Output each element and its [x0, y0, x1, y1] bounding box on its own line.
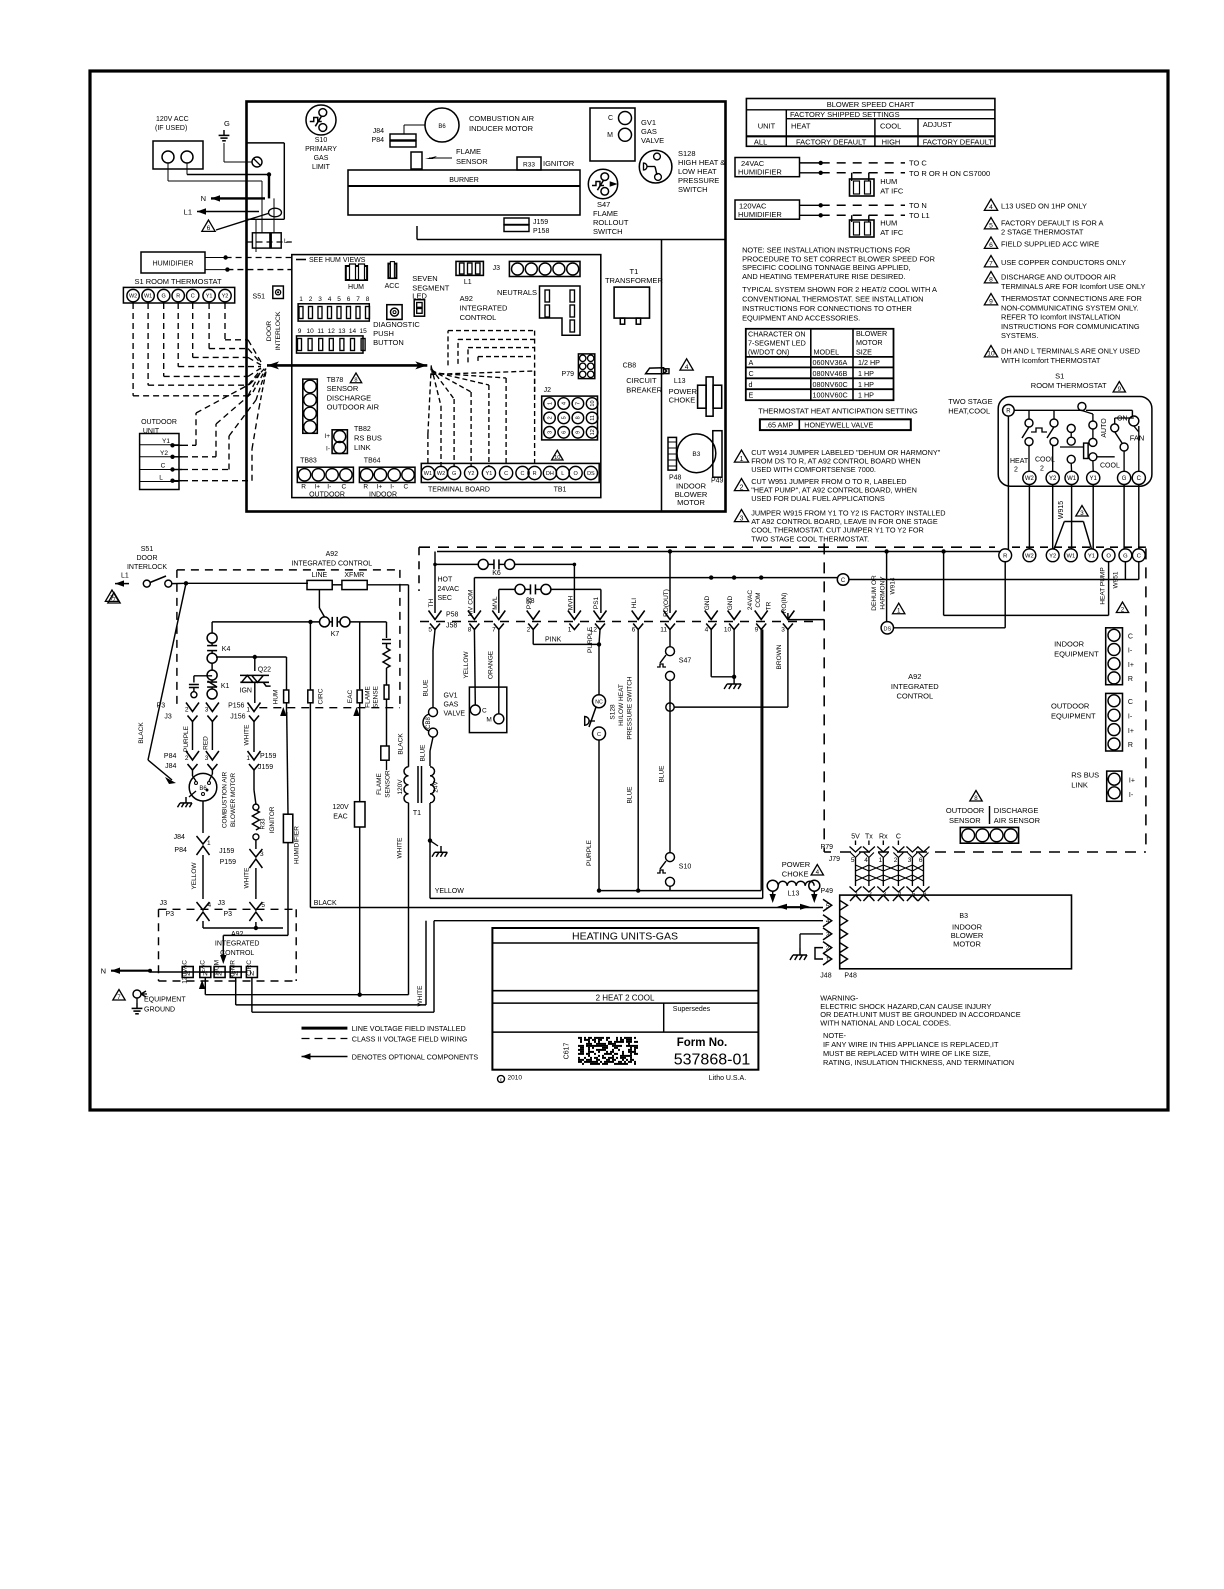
svg-text:ACC: ACC [385, 283, 400, 290]
svg-text:6: 6 [989, 242, 993, 249]
hum wire arrow down [286, 703, 288, 714]
svg-text:TWO STAGE COOL THERMOSTAT.: TWO STAGE COOL THERMOSTAT. [751, 534, 869, 543]
svg-text:Y1: Y1 [162, 438, 170, 445]
svg-text:Tx: Tx [865, 834, 873, 841]
svg-text:120V: 120V [397, 779, 404, 795]
connector HUM on board [346, 266, 367, 280]
svg-text:INTEGRATED: INTEGRATED [215, 941, 260, 948]
svg-text:P49: P49 [821, 888, 834, 895]
svg-text:G: G [452, 471, 456, 477]
svg-text:3: 3 [826, 931, 830, 938]
svg-text:MVH: MVH [567, 595, 574, 610]
svg-text:O: O [573, 471, 578, 477]
svg-text:HUMIDIFIER: HUMIDIFIER [738, 210, 782, 219]
svg-text:080NV46B: 080NV46B [813, 369, 848, 378]
svg-text:INTERLOCK: INTERLOCK [127, 564, 167, 571]
pressure switch S128 in ladder [593, 695, 606, 708]
svg-text:WHITE: WHITE [417, 985, 424, 1007]
svg-text:TB78: TB78 [327, 377, 344, 384]
svg-text:B3: B3 [959, 913, 968, 920]
svg-text:BURNER: BURNER [449, 177, 479, 184]
triangle note 8 sensors [970, 791, 982, 802]
svg-text:W951: W951 [1113, 571, 1120, 588]
svg-text:POWER: POWER [782, 860, 811, 869]
svg-text:A92: A92 [460, 294, 473, 303]
svg-text:P84: P84 [174, 847, 187, 854]
svg-text:AT IFC: AT IFC [880, 228, 904, 237]
svg-text:WITH Icomfort THERMOSTAT: WITH Icomfort THERMOSTAT [1001, 356, 1101, 365]
wire N bold [211, 197, 265, 199]
svg-text:M: M [486, 717, 491, 724]
svg-text:FIELD SUPPLIED ACC WIRE: FIELD SUPPLIED ACC WIRE [1001, 240, 1099, 249]
thermostat heat anticipation table [760, 419, 911, 430]
svg-text:SWITCH: SWITCH [593, 227, 623, 236]
T1 secondary to ground [429, 803, 431, 898]
svg-text:11: 11 [317, 328, 324, 335]
svg-text:5: 5 [261, 902, 265, 909]
svg-text:G: G [162, 294, 166, 300]
svg-text:080NV60C: 080NV60C [813, 380, 848, 389]
note 8 discharge outdoor air [984, 272, 997, 283]
screw terminal on interlock box [252, 157, 262, 167]
svg-text:SEC: SEC [438, 595, 452, 602]
sensor connector block [960, 827, 1018, 843]
svg-text:1 HP: 1 HP [858, 380, 874, 389]
svg-text:Rx: Rx [879, 834, 888, 841]
svg-text:1: 1 [547, 402, 553, 405]
svg-text:COOL: COOL [1035, 457, 1055, 464]
svg-text:TYPICAL SYSTEM SHOWN FOR 2 HEA: TYPICAL SYSTEM SHOWN FOR 2 HEAT/2 COOL W… [742, 285, 937, 294]
ignitor R33 box [517, 157, 541, 170]
svg-text:4: 4 [208, 902, 212, 909]
svg-text:SPECIFIC COOLING TONNAGE BEING: SPECIFIC COOLING TONNAGE BEING APPLIED, [742, 263, 911, 272]
svg-text:Supersedes: Supersedes [673, 1006, 711, 1013]
svg-text:BLACK: BLACK [138, 722, 145, 744]
svg-text:GV1: GV1 [641, 118, 656, 127]
svg-text:S10: S10 [679, 864, 692, 871]
svg-text:YELLOW: YELLOW [463, 651, 470, 679]
svg-text:DENOTES OPTIONAL COMPONENTS: DENOTES OPTIONAL COMPONENTS [352, 1052, 479, 1061]
svg-text:A92: A92 [908, 672, 921, 681]
diagnostic push button [387, 305, 402, 320]
svg-text:J3: J3 [160, 900, 168, 907]
svg-text:LED: LED [412, 291, 427, 300]
svg-text:OUTDOOR: OUTDOOR [1051, 702, 1090, 711]
svg-text:L: L [159, 475, 163, 482]
wires thermostat to lower terminals [1028, 485, 1030, 550]
svg-text:L: L [561, 471, 564, 477]
svg-text:PURPLE: PURPLE [586, 839, 593, 866]
svg-text:J159: J159 [219, 848, 234, 855]
switch S10 in ladder [666, 853, 675, 862]
svg-text:THERMOSTAT CONNECTIONS ARE FOR: THERMOSTAT CONNECTIONS ARE FOR [1001, 294, 1142, 303]
svg-text:BLACK: BLACK [314, 900, 337, 907]
svg-text:W2: W2 [1025, 476, 1035, 482]
outdoor unit wire dots [170, 443, 174, 447]
bottom junction bus purple blue [599, 890, 761, 892]
svg-text:CB8: CB8 [426, 717, 432, 729]
svg-text:CONVENTIONAL THERMOSTAT. SEE I: CONVENTIONAL THERMOSTAT. SEE INSTALLATIO… [742, 294, 923, 303]
svg-text:FLAME: FLAME [365, 686, 372, 708]
svg-text:I+: I+ [377, 484, 383, 491]
svg-text:PURPLE: PURPLE [587, 626, 594, 653]
bold wire from thermostat junction to board [267, 364, 427, 367]
svg-text:HONEYWELL VALVE: HONEYWELL VALVE [804, 420, 873, 429]
burner box [348, 170, 580, 215]
svg-text:EAC: EAC [199, 960, 206, 974]
svg-text:INDUCER MOTOR: INDUCER MOTOR [469, 124, 534, 133]
svg-text:C: C [841, 578, 846, 584]
svg-text:2 STAGE THERMOSTAT: 2 STAGE THERMOSTAT [1001, 228, 1084, 237]
svg-text:INTERLOCK: INTERLOCK [275, 311, 282, 350]
svg-text:IGN: IGN [240, 688, 252, 695]
svg-text:1/2 HP: 1/2 HP [858, 358, 880, 367]
svg-text:P79: P79 [821, 844, 834, 851]
svg-text:INTEGRATED: INTEGRATED [891, 682, 939, 691]
svg-text:DOOR: DOOR [266, 321, 273, 341]
svg-text:24V: 24V [433, 781, 440, 793]
svg-text:T1: T1 [413, 810, 421, 817]
wire TH blue to gas valve CB8 [433, 630, 435, 651]
svg-text:Y2: Y2 [1049, 476, 1057, 482]
svg-text:S1 ROOM THERMOSTAT: S1 ROOM THERMOSTAT [134, 277, 222, 286]
note 3 jumper W915 [734, 510, 748, 522]
svg-text:R33: R33 [260, 818, 266, 830]
svg-text:C: C [191, 294, 195, 300]
svg-text:AND HEATING TEMPERATURE RISE D: AND HEATING TEMPERATURE RISE DESIRED. [742, 272, 905, 281]
svg-text:HUM: HUM [348, 284, 364, 291]
svg-text:C: C [1128, 699, 1133, 706]
svg-text:C: C [482, 708, 487, 715]
svg-text:3: 3 [740, 514, 744, 522]
svg-text:ALL: ALL [754, 138, 767, 147]
svg-text:7: 7 [117, 994, 121, 1001]
relay contact K6 [434, 552, 436, 614]
svg-text:GAS: GAS [314, 155, 329, 162]
svg-text:11: 11 [660, 627, 667, 634]
note 5 factory default [984, 218, 997, 229]
svg-text:R: R [1128, 676, 1133, 683]
svg-text:EQUIPMENT AND ACCESSORIES.: EQUIPMENT AND ACCESSORIES. [742, 314, 860, 323]
svg-text:3: 3 [1080, 510, 1084, 517]
svg-text:HEAT: HEAT [791, 122, 811, 131]
svg-text:RS BUS: RS BUS [354, 434, 382, 443]
svg-text:7: 7 [112, 597, 116, 604]
svg-text:THERMOSTAT HEAT ANTICIPATION S: THERMOSTAT HEAT ANTICIPATION SETTING [758, 407, 918, 416]
svg-text:1 HP: 1 HP [858, 369, 874, 378]
svg-text:9: 9 [755, 627, 759, 634]
triangle note 7 [105, 590, 118, 601]
svg-text:4: 4 [685, 364, 689, 371]
svg-text:5: 5 [562, 416, 568, 419]
svg-text:CIRCUIT: CIRCUIT [626, 376, 657, 385]
svg-text:C: C [161, 463, 166, 470]
dashed wire bundle to terminal board [428, 365, 431, 434]
svg-text:P84: P84 [164, 753, 177, 760]
note 2 cut W951 [734, 479, 748, 491]
svg-text:S51: S51 [253, 294, 266, 301]
svg-text:120V ACC: 120V ACC [156, 116, 189, 123]
wires below J3 P3 [202, 921, 204, 928]
svg-text:10: 10 [724, 627, 732, 634]
svg-text:3: 3 [205, 755, 209, 762]
svg-text:DISCHARGE AND OUTDOOR AIR: DISCHARGE AND OUTDOOR AIR [1001, 273, 1116, 282]
B3 indoor blower motor box [840, 895, 1072, 969]
svg-text:INTEGRATED CONTROL: INTEGRATED CONTROL [291, 561, 372, 568]
svg-text:TO C: TO C [909, 158, 927, 167]
svg-text:SEE HUM VIEWS: SEE HUM VIEWS [309, 257, 366, 264]
combustion air inducer motor B6 circle [425, 108, 459, 142]
svg-text:YELLOW: YELLOW [191, 862, 198, 890]
svg-text:2010: 2010 [508, 1075, 523, 1082]
thermostat fan ON circle [1129, 416, 1139, 426]
ACC terminal circles [162, 151, 174, 163]
svg-text:Litho U.S.A.: Litho U.S.A. [709, 1075, 746, 1082]
svg-text:7: 7 [356, 296, 360, 303]
DS node circle [881, 622, 893, 634]
svg-text:TWO STAGE: TWO STAGE [948, 397, 992, 406]
note 7 copper conductors [984, 256, 997, 267]
class II dashed separator line [419, 546, 995, 548]
svg-text:100NV60C: 100NV60C [813, 391, 848, 400]
svg-text:DEHUM OR: DEHUM OR [871, 575, 878, 611]
cabinet enclosure box [247, 102, 726, 512]
svg-text:HOT: HOT [438, 577, 454, 584]
T1 primary white return [408, 803, 410, 995]
B3 pin3 ground [800, 933, 823, 935]
svg-text:LIMIT: LIMIT [312, 164, 331, 171]
burner compartment bottom line [417, 239, 726, 241]
wire TR 24vac com down [760, 630, 762, 891]
note 9 thermostat connections [984, 294, 997, 305]
svg-text:2: 2 [826, 945, 830, 952]
svg-text:N: N [101, 967, 106, 976]
svg-text:INTEGRATED: INTEGRATED [460, 304, 508, 313]
svg-text:1: 1 [246, 707, 250, 714]
capacitor parallel with K1 [194, 675, 212, 677]
svg-text:TB64: TB64 [364, 458, 381, 465]
A92 dashed box lower left [159, 908, 297, 910]
svg-text:A: A [749, 358, 754, 367]
humidifier wire into HUM N [223, 934, 288, 936]
svg-text:I+: I+ [1128, 728, 1134, 735]
flame sensor element [411, 152, 422, 169]
B3 blower pin chevrons [823, 899, 832, 911]
svg-text:R: R [1003, 553, 1007, 559]
triangle note 4 at choke [680, 359, 693, 370]
svg-text:HUM: HUM [214, 960, 221, 975]
wire to B3 pin 4 [434, 920, 823, 922]
svg-text:C: C [749, 369, 754, 378]
svg-text:5: 5 [337, 296, 341, 303]
svg-text:7: 7 [989, 261, 993, 268]
svg-text:NOTE-: NOTE- [823, 1031, 847, 1040]
svg-text:P156: P156 [228, 703, 244, 710]
svg-text:2: 2 [894, 857, 898, 864]
120V ACC terminal box [153, 141, 203, 169]
svg-text:VALVE: VALVE [641, 136, 664, 145]
svg-text:8: 8 [576, 416, 582, 419]
svg-text:2: 2 [1014, 467, 1018, 474]
svg-text:Y2: Y2 [160, 450, 168, 457]
connector L1 on board [456, 261, 483, 275]
svg-text:TB1: TB1 [554, 487, 567, 494]
black diagonal wire from interlock to B6 [148, 583, 186, 760]
svg-text:SIZE: SIZE [856, 347, 872, 356]
connector J159 P159 [504, 218, 529, 225]
svg-text:2: 2 [527, 627, 531, 634]
svg-text:I+: I+ [314, 484, 320, 491]
svg-text:GV1: GV1 [444, 693, 458, 700]
svg-text:S1: S1 [1055, 372, 1064, 381]
svg-text:WITH NATIONAL AND LOCAL CODES.: WITH NATIONAL AND LOCAL CODES. [820, 1019, 951, 1028]
wire DS to R [894, 627, 1006, 629]
bus 2 [474, 577, 838, 579]
wire B6 down yellow [202, 801, 204, 833]
svg-text:I+: I+ [1129, 778, 1135, 785]
svg-text:DH AND L TERMINALS ARE ONLY US: DH AND L TERMINALS ARE ONLY USED [1001, 347, 1140, 356]
svg-text:24VAC: 24VAC [747, 590, 754, 610]
wire PS2 pink [532, 630, 534, 645]
svg-text:8: 8 [354, 378, 357, 384]
relay contact K1 [207, 670, 217, 680]
connector chevrons motor circuit [186, 703, 199, 712]
legend line voltage [302, 1027, 348, 1030]
relay contact K4 [207, 633, 217, 643]
dip switch bank 1-8 [298, 304, 369, 321]
svg-text:1 HP: 1 HP [858, 391, 874, 400]
limit switch S10 primary gas limit [306, 105, 336, 135]
svg-text:15: 15 [359, 328, 367, 335]
svg-text:R: R [1006, 408, 1011, 414]
connector pins P58-J58 row [429, 611, 442, 620]
svg-text:J156: J156 [230, 714, 245, 721]
svg-text:W1: W1 [424, 471, 432, 477]
svg-text:FLAME: FLAME [456, 147, 481, 156]
svg-text:.65 AMP: .65 AMP [766, 420, 793, 429]
svg-text:J79: J79 [829, 856, 840, 863]
120VAC humidifier box [735, 200, 800, 219]
svg-text:LOW HEAT: LOW HEAT [678, 167, 717, 176]
twisted pair wires J79 to P49 [855, 858, 857, 886]
svg-text:P79: P79 [562, 371, 575, 378]
svg-text:P159: P159 [260, 753, 276, 760]
svg-text:B3: B3 [692, 451, 700, 458]
svg-text:10: 10 [554, 455, 560, 461]
svg-text:USED WITH COMFORTSENSE 7000.: USED WITH COMFORTSENSE 7000. [751, 465, 876, 474]
wire R terminal to bus [1001, 551, 1005, 553]
svg-text:GND: GND [704, 595, 711, 610]
svg-text:C: C [404, 484, 409, 491]
svg-text:J159: J159 [258, 764, 273, 771]
svg-text:PUSH: PUSH [373, 329, 394, 338]
svg-text:EQUIPMENT: EQUIPMENT [144, 997, 186, 1004]
combustion air blower motor B6 [189, 773, 217, 801]
svg-text:3: 3 [318, 296, 322, 303]
svg-text:10: 10 [987, 351, 995, 358]
thermostat middle contacts [1067, 424, 1075, 432]
svg-text:2: 2 [185, 755, 189, 762]
flame sensor rect in ladder [381, 746, 389, 760]
svg-text:WHITE: WHITE [244, 867, 251, 889]
svg-text:8: 8 [366, 296, 370, 303]
door interlock compartment [247, 142, 285, 144]
svg-text:10: 10 [590, 400, 596, 406]
note 6 field supplied [984, 237, 997, 248]
svg-text:G: G [1123, 553, 1128, 559]
svg-text:W2: W2 [1025, 553, 1034, 559]
svg-text:RED: RED [203, 736, 210, 750]
svg-text:INSTRUCTIONS FOR COMMUNICATING: INSTRUCTIONS FOR COMMUNICATING [1001, 322, 1140, 331]
svg-text:SENSE: SENSE [373, 685, 380, 708]
svg-text:BLUE: BLUE [627, 786, 634, 804]
svg-text:RO(OUT): RO(OUT) [663, 589, 670, 617]
svg-text:IGNITOR: IGNITOR [543, 159, 575, 168]
svg-text:BLOWER SPEED CHART: BLOWER SPEED CHART [827, 100, 915, 109]
svg-text:HUM: HUM [880, 177, 897, 186]
humidifier resistor in ladder [283, 814, 292, 842]
svg-text:SWITCH: SWITCH [678, 185, 708, 194]
svg-text:P158: P158 [533, 228, 549, 235]
svg-text:13: 13 [338, 328, 346, 335]
relay contact K8 [515, 584, 525, 594]
dashed wires outdoor unit to junction [173, 444, 183, 446]
svg-text:Y2: Y2 [1049, 553, 1056, 559]
svg-text:5V: 5V [851, 834, 860, 841]
svg-text:LINK: LINK [354, 443, 371, 452]
svg-text:L1: L1 [121, 573, 129, 580]
svg-text:NEUTRALS: NEUTRALS [497, 288, 537, 297]
svg-text:3: 3 [908, 857, 912, 864]
svg-text:1: 1 [568, 627, 572, 634]
svg-text:HEAT: HEAT [1010, 458, 1029, 465]
svg-text:COM: COM [755, 592, 762, 607]
svg-text:TB83: TB83 [300, 458, 317, 465]
svg-text:INDOOR: INDOOR [1054, 640, 1085, 649]
svg-text:M: M [607, 132, 613, 139]
svg-text:12: 12 [328, 328, 336, 335]
svg-text:C: C [1137, 476, 1142, 482]
svg-text:GROUND: GROUND [144, 1007, 175, 1014]
svg-text:DS: DS [883, 626, 891, 632]
svg-text:DH: DH [546, 471, 554, 477]
svg-text:MOTOR: MOTOR [677, 498, 705, 507]
indoor blower motor B3 circle [677, 434, 716, 473]
svg-text:Form No.: Form No. [677, 1037, 727, 1049]
title block heating units gas [492, 928, 758, 1070]
svg-text:P3: P3 [165, 911, 174, 918]
svg-text:CHOKE: CHOKE [782, 869, 809, 878]
svg-text:L1: L1 [464, 279, 472, 286]
svg-text:3: 3 [547, 431, 553, 434]
TB82 RS bus link connector [332, 430, 347, 454]
svg-text:P48: P48 [844, 973, 857, 980]
seven segment display [414, 300, 424, 317]
svg-text:CHARACTER ON: CHARACTER ON [748, 330, 806, 339]
svg-text:I+: I+ [1128, 662, 1134, 669]
svg-text:USED FOR DUAL FUEL APPLICATION: USED FOR DUAL FUEL APPLICATIONS [751, 494, 885, 503]
svg-text:NC: NC [595, 700, 603, 706]
svg-text:USE COPPER CONDUCTORS ONLY: USE COPPER CONDUCTORS ONLY [1001, 258, 1126, 267]
gas valve box in ladder [469, 687, 506, 733]
svg-text:1: 1 [299, 296, 303, 303]
svg-text:EAC: EAC [333, 814, 347, 821]
wires from lower thermostat terminals down [1004, 562, 1006, 628]
svg-text:L13 USED ON 1HP ONLY: L13 USED ON 1HP ONLY [1001, 202, 1087, 211]
inner partition line [661, 240, 663, 512]
svg-text:6: 6 [632, 627, 636, 634]
svg-text:I-: I- [326, 446, 330, 453]
